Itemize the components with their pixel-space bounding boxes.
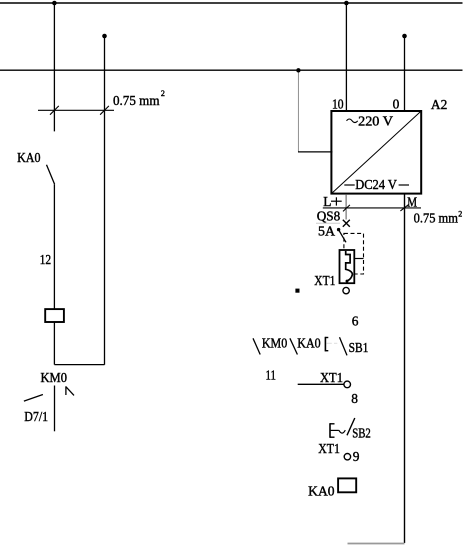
svg-text:M: M	[407, 194, 417, 209]
svg-text:XT1: XT1	[320, 370, 343, 385]
svg-text:10: 10	[332, 97, 344, 112]
svg-text:XT1: XT1	[314, 273, 335, 288]
svg-text:DC24 V: DC24 V	[355, 177, 397, 192]
svg-text:L: L	[323, 194, 331, 209]
svg-text:6: 6	[352, 314, 359, 329]
svg-text:0.75 mm: 0.75 mm	[113, 93, 160, 108]
svg-text:QS8: QS8	[317, 208, 341, 223]
svg-text:2: 2	[161, 89, 165, 98]
svg-text:0: 0	[393, 97, 400, 112]
svg-text:9: 9	[353, 449, 360, 464]
svg-text:5A: 5A	[318, 224, 335, 239]
svg-text:8: 8	[351, 391, 358, 406]
svg-text:0.75 mm: 0.75 mm	[414, 211, 459, 226]
svg-text:XT1: XT1	[318, 441, 340, 456]
svg-text:KA0: KA0	[17, 150, 41, 165]
svg-text:SB1: SB1	[349, 340, 369, 355]
svg-text:A2: A2	[431, 97, 447, 112]
svg-text:KA0: KA0	[308, 484, 335, 499]
svg-text:D7/1: D7/1	[24, 409, 48, 424]
svg-text:11: 11	[266, 368, 277, 383]
svg-text:KM0: KM0	[262, 336, 288, 351]
svg-text:12: 12	[40, 252, 52, 267]
svg-text:KM0: KM0	[41, 370, 68, 385]
svg-text:SB2: SB2	[352, 426, 371, 441]
svg-text:2: 2	[458, 209, 462, 218]
svg-text:KA0: KA0	[297, 336, 321, 351]
svg-text:220 V: 220 V	[358, 113, 393, 128]
